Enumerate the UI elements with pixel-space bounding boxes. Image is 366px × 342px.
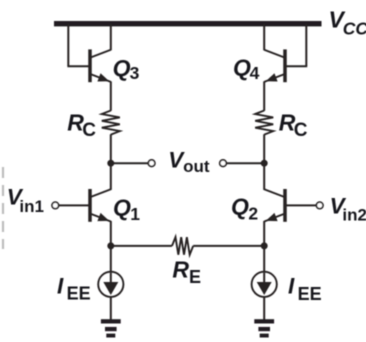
svg-text:4: 4 [250,63,260,83]
svg-text:E: E [189,267,201,287]
svg-text:in1: in1 [19,197,44,216]
svg-text:EE: EE [298,284,322,304]
svg-text:Q: Q [231,194,249,220]
svg-text:C: C [294,120,308,141]
svg-text:Q: Q [113,55,131,81]
svg-text:I: I [57,273,64,298]
svg-text:CC: CC [343,19,366,39]
svg-text:1: 1 [130,204,140,224]
svg-text:Q: Q [113,194,131,220]
svg-text:in2: in2 [342,205,366,224]
svg-text:2: 2 [248,204,258,224]
svg-text:R: R [172,256,189,282]
svg-text:out: out [183,157,210,176]
svg-text:C: C [82,120,96,141]
svg-text:Q: Q [233,55,251,81]
svg-text:EE: EE [67,284,91,304]
svg-text:3: 3 [130,63,140,83]
svg-text:I: I [288,273,295,298]
